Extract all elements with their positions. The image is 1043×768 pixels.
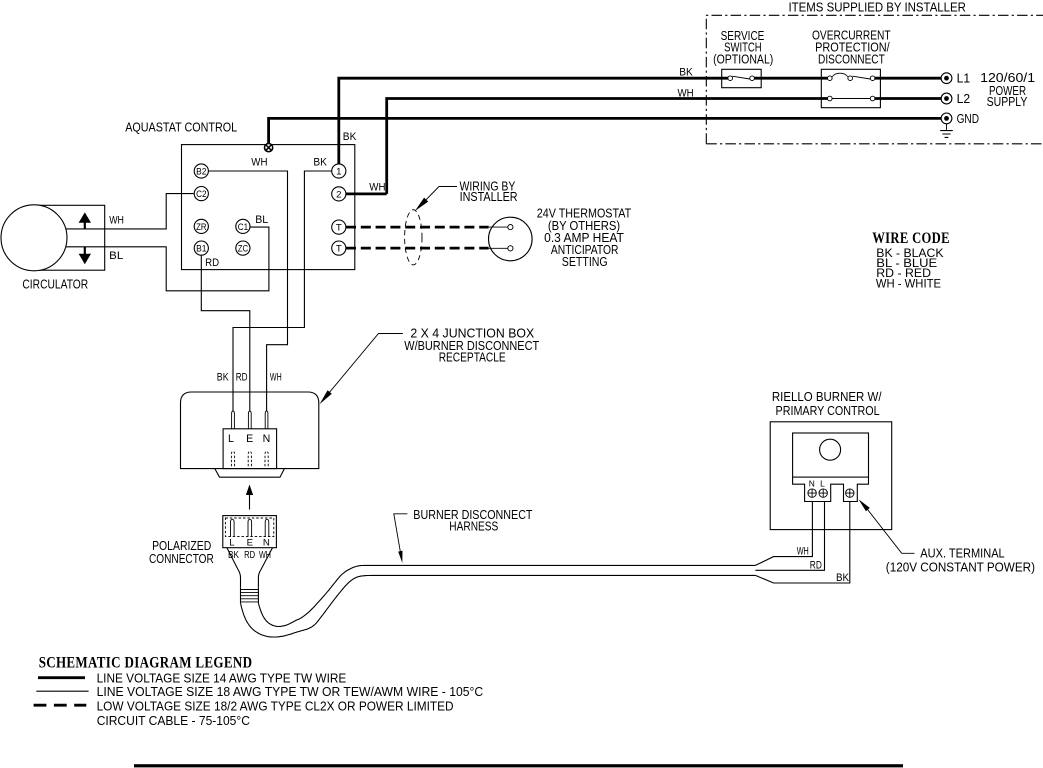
svg-text:LINE VOLTAGE SIZE 18 AWG TYPE: LINE VOLTAGE SIZE 18 AWG TYPE TW OR TEW/… xyxy=(97,684,484,699)
svg-text:LOW VOLTAGE SIZE 18/2 AWG TYPE: LOW VOLTAGE SIZE 18/2 AWG TYPE CL2X OR P… xyxy=(97,699,454,714)
svg-text:WH: WH xyxy=(259,550,271,561)
svg-text:SCHEMATIC DIAGRAM LEGEND: SCHEMATIC DIAGRAM LEGEND xyxy=(39,654,253,672)
svg-text:BL: BL xyxy=(109,250,123,262)
svg-text:2: 2 xyxy=(336,189,341,200)
svg-text:WH: WH xyxy=(797,545,809,557)
svg-text:WIRE CODE: WIRE CODE xyxy=(872,230,950,247)
svg-text:E: E xyxy=(247,537,253,548)
svg-text:BK: BK xyxy=(679,66,693,78)
svg-text:CONNECTOR: CONNECTOR xyxy=(149,551,214,566)
svg-text:AUX. TERMINAL: AUX. TERMINAL xyxy=(920,545,1004,560)
svg-text:L: L xyxy=(228,433,234,445)
svg-text:L: L xyxy=(229,537,235,548)
svg-text:RD: RD xyxy=(244,550,255,561)
svg-text:RD: RD xyxy=(236,372,248,384)
svg-text:T: T xyxy=(336,244,342,255)
svg-text:DISCONNECT: DISCONNECT xyxy=(818,51,885,66)
svg-text:(120V CONSTANT POWER): (120V CONSTANT POWER) xyxy=(886,560,1035,575)
svg-text:RD: RD xyxy=(810,559,822,571)
svg-text:RD: RD xyxy=(205,257,219,269)
svg-text:BK: BK xyxy=(217,372,229,384)
svg-text:WH: WH xyxy=(251,157,267,169)
svg-text:WH: WH xyxy=(109,214,124,226)
svg-text:SETTING: SETTING xyxy=(562,254,608,269)
svg-text:C1: C1 xyxy=(238,222,248,233)
svg-text:(OPTIONAL): (OPTIONAL) xyxy=(713,52,773,67)
svg-text:BK: BK xyxy=(228,550,239,561)
svg-text:N: N xyxy=(263,537,270,548)
svg-text:L1: L1 xyxy=(957,71,971,86)
svg-text:WH: WH xyxy=(369,181,385,193)
svg-text:PRIMARY CONTROL: PRIMARY CONTROL xyxy=(776,403,880,418)
svg-text:E: E xyxy=(246,433,253,445)
svg-text:GND: GND xyxy=(957,111,979,126)
svg-text:1: 1 xyxy=(336,166,341,177)
svg-text:AQUASTAT CONTROL: AQUASTAT CONTROL xyxy=(125,119,237,134)
svg-text:C2: C2 xyxy=(196,189,206,200)
svg-text:WH: WH xyxy=(270,372,282,384)
svg-text:HARNESS: HARNESS xyxy=(449,519,498,534)
svg-text:INSTALLER: INSTALLER xyxy=(460,189,518,204)
svg-text:B2: B2 xyxy=(196,166,206,177)
svg-text:ITEMS SUPPLIED BY INSTALLER: ITEMS SUPPLIED BY INSTALLER xyxy=(789,0,966,15)
svg-text:CIRCUIT CABLE - 75-105°C: CIRCUIT CABLE - 75-105°C xyxy=(97,713,250,728)
svg-text:SUPPLY: SUPPLY xyxy=(987,94,1028,109)
svg-text:N: N xyxy=(263,433,271,445)
svg-text:BK: BK xyxy=(836,572,850,584)
svg-text:L: L xyxy=(820,478,825,488)
svg-text:T: T xyxy=(336,223,342,234)
svg-text:B1: B1 xyxy=(196,244,206,255)
svg-text:BK: BK xyxy=(343,131,357,143)
svg-text:BL: BL xyxy=(255,214,268,226)
svg-text:BK: BK xyxy=(313,157,327,169)
svg-text:N: N xyxy=(809,478,815,488)
svg-text:ZC: ZC xyxy=(238,244,248,255)
svg-text:L2: L2 xyxy=(957,91,971,106)
svg-text:RECEPTACLE: RECEPTACLE xyxy=(439,350,506,365)
svg-text:CIRCULATOR: CIRCULATOR xyxy=(22,277,88,291)
svg-text:WH: WH xyxy=(678,88,694,100)
svg-text:WH - WHITE: WH - WHITE xyxy=(876,278,941,291)
svg-text:ZR: ZR xyxy=(196,222,206,233)
